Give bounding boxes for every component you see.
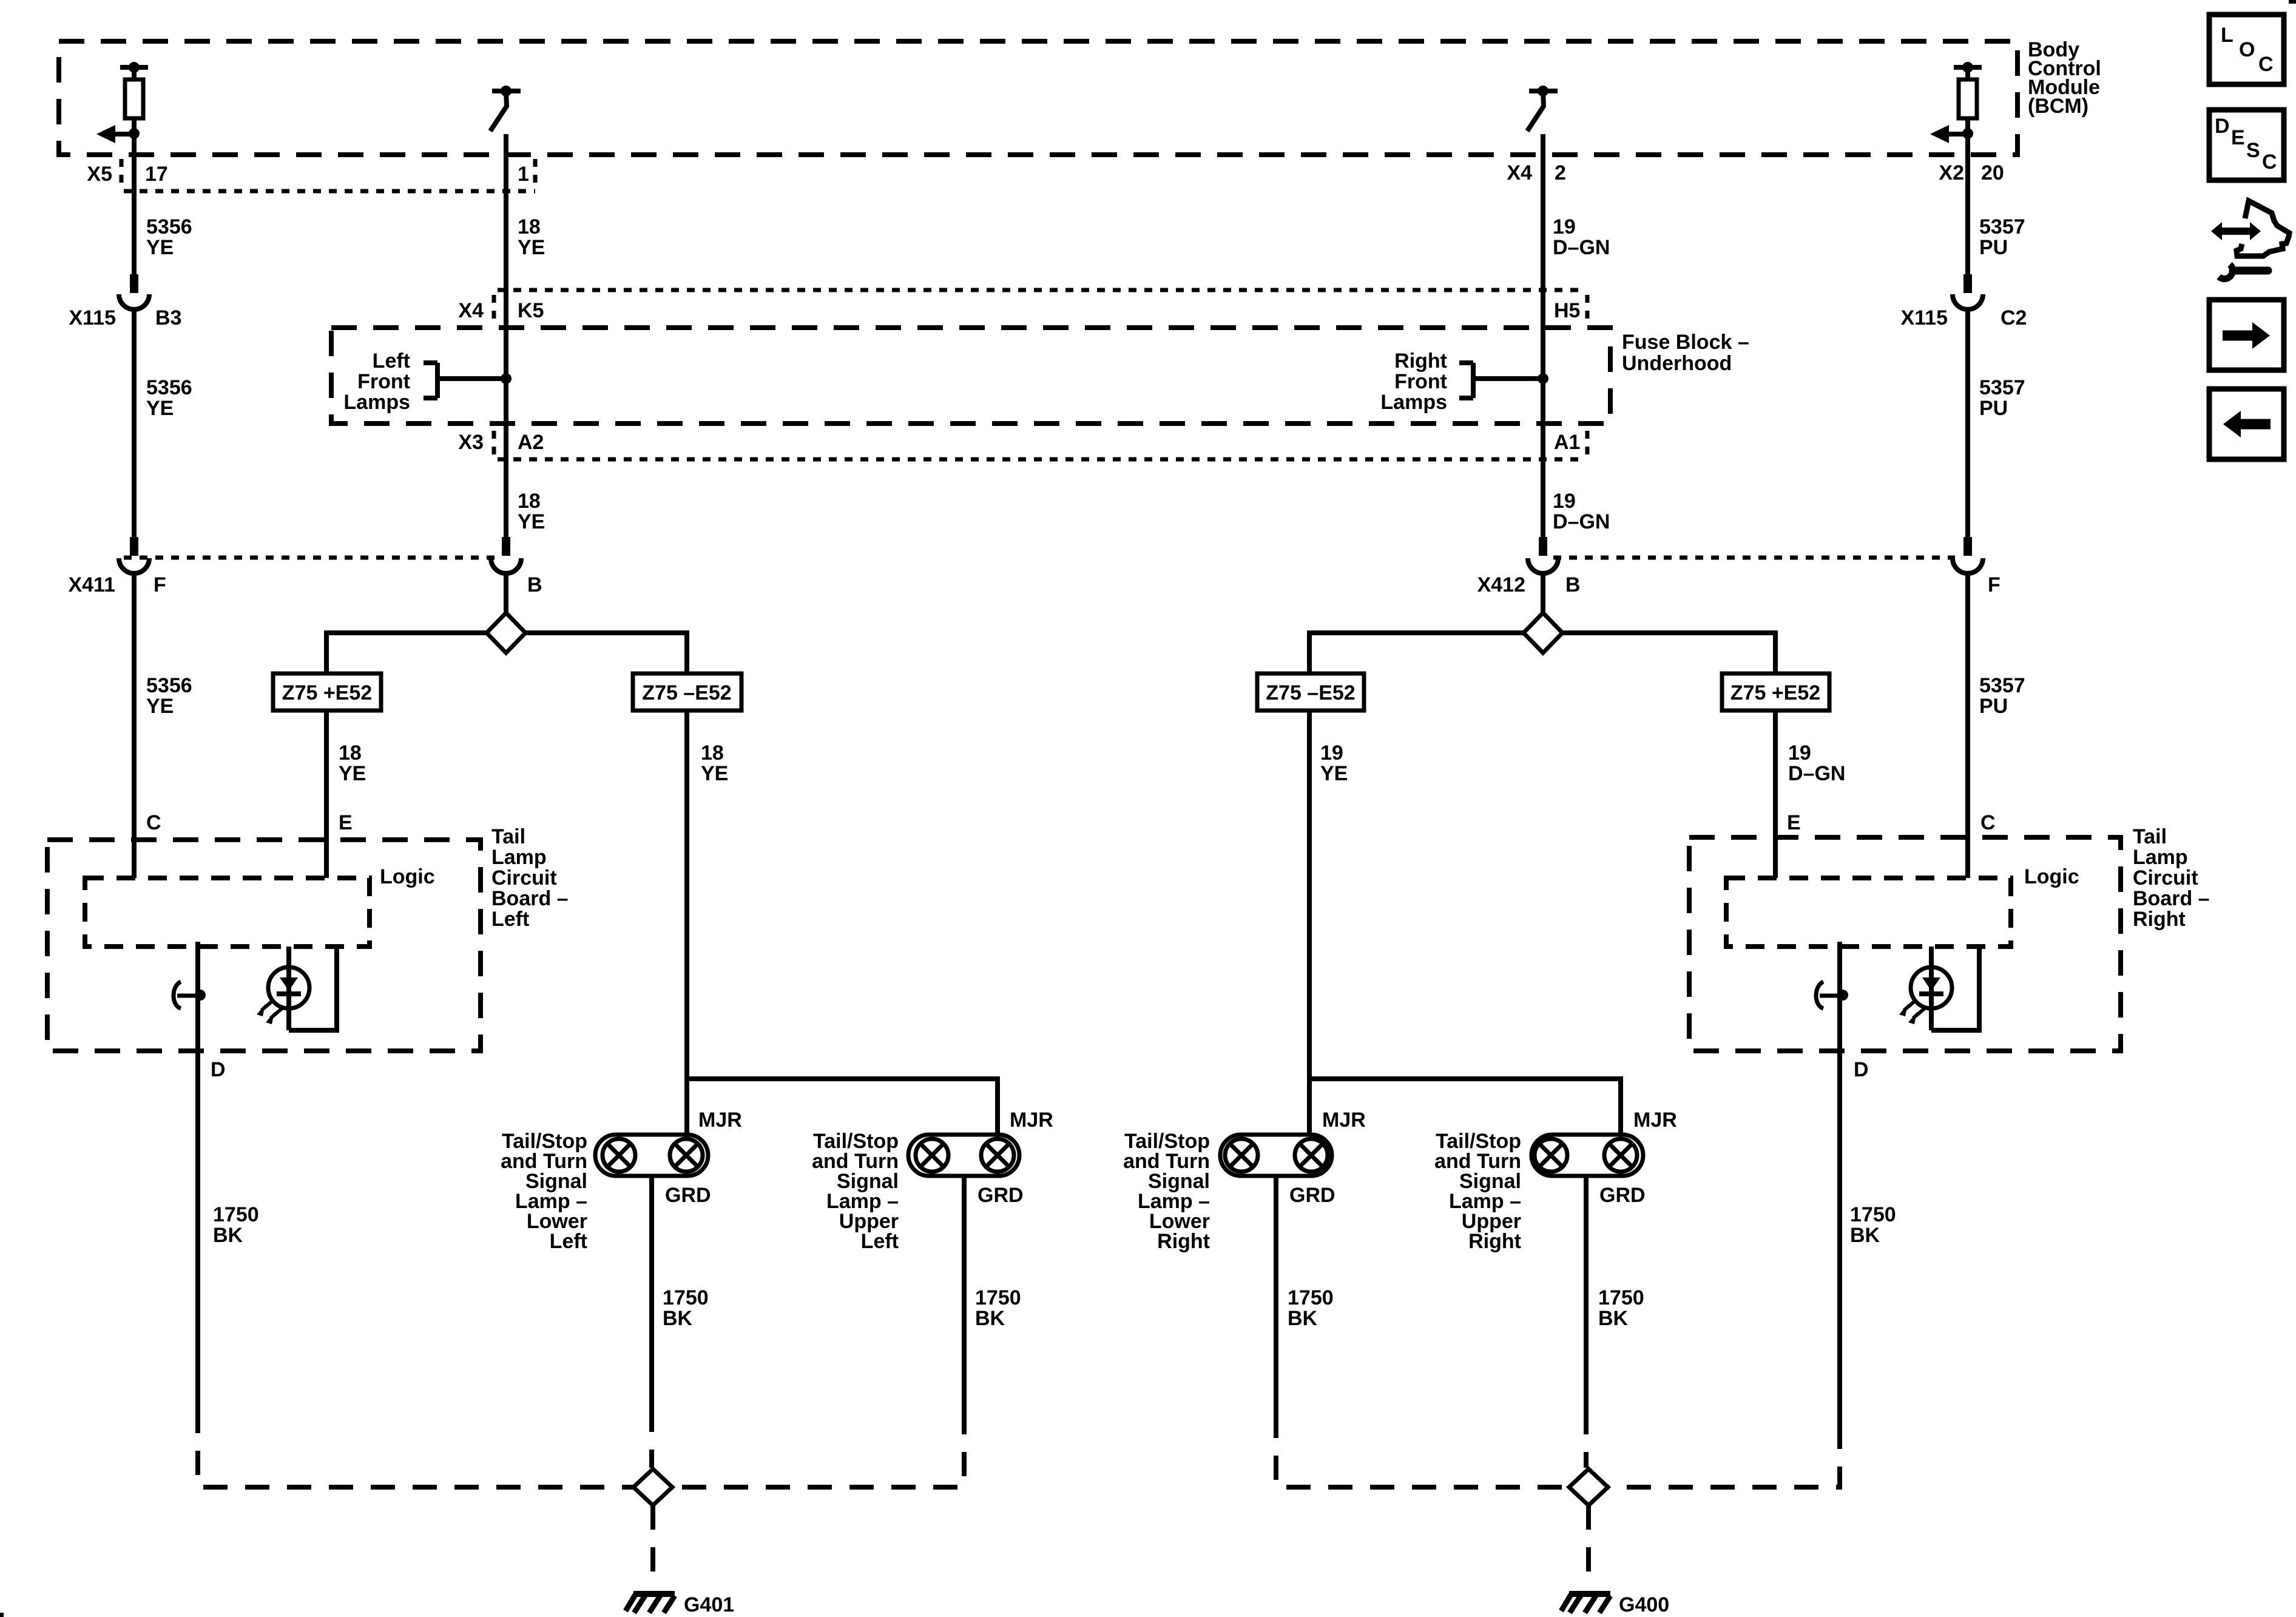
- wire 18 YE (X411-B to splice diamond): [504, 572, 508, 613]
- svg-text:1750: 1750: [1598, 1286, 1644, 1309]
- svg-text:Lamp: Lamp: [491, 846, 547, 869]
- splice pack Z75 +E52 (left): [273, 673, 381, 711]
- svg-text:D: D: [211, 1058, 226, 1081]
- Tail Lamp Circuit Board - Right dashed box: [1689, 837, 2121, 1051]
- splice pack Z75 -E52 (right): [1257, 673, 1364, 711]
- svg-text:1750: 1750: [213, 1203, 259, 1226]
- svg-text:YE: YE: [146, 695, 174, 718]
- wire 1750 BK (lamp lower right GRD): [1274, 1176, 1278, 1414]
- svg-text:18: 18: [518, 215, 541, 238]
- svg-text:Logic: Logic: [380, 865, 435, 888]
- svg-text:Front: Front: [1394, 370, 1447, 393]
- splice pack Z75 +E52 (right): [1722, 673, 1829, 711]
- svg-text:YE: YE: [1320, 762, 1348, 785]
- svg-text:Z75 –E52: Z75 –E52: [642, 681, 731, 704]
- wire 5357 PU (X412 to right board pin C): [1965, 572, 1970, 878]
- svg-text:O: O: [2239, 38, 2255, 61]
- LED (left board): [257, 947, 337, 1030]
- svg-text:GRD: GRD: [665, 1184, 711, 1207]
- svg-text:D: D: [2215, 115, 2230, 138]
- svg-text:D–GN: D–GN: [1553, 510, 1610, 533]
- svg-text:Underhood: Underhood: [1622, 352, 1732, 375]
- Fuse Block - Underhood dashed box: [331, 328, 1610, 424]
- svg-text:Lamps: Lamps: [343, 391, 410, 414]
- junction dot (Left Front Lamps tap): [501, 373, 512, 384]
- node dot + left arrow (BCM left output): [96, 125, 140, 143]
- svg-text:(BCM): (BCM): [2028, 95, 2088, 118]
- splice diamond (left): [487, 613, 525, 653]
- in-line connector X412 pin B: [1528, 537, 1558, 573]
- svg-text:PU: PU: [1979, 695, 2008, 718]
- svg-text:Right: Right: [1468, 1230, 1521, 1253]
- wire 18 YE (Z75-E52 down to lamp MJR): [684, 711, 689, 1136]
- svg-text:19: 19: [1788, 741, 1811, 765]
- svg-text:X411: X411: [68, 573, 115, 596]
- wire branch left (to Z75 +E52): [326, 633, 487, 673]
- wire 5357 PU (BCM X2-20 to X115): [1965, 133, 1970, 274]
- wire 5356 YE (X411 to tail lamp board C): [132, 572, 137, 878]
- svg-text:18: 18: [518, 490, 541, 513]
- wire 5356 YE (X115 to X411): [132, 308, 137, 537]
- svg-text:1750: 1750: [663, 1286, 709, 1309]
- resistor R-right (inside BCM): [1954, 62, 1982, 155]
- in-line connector X115 pin C2: [1953, 274, 1983, 309]
- wire 18 YE (BCM X5-1 down to splice): [504, 134, 508, 537]
- Tail Lamp Circuit Board - Left dashed box: [47, 840, 481, 1051]
- svg-text:1750: 1750: [1288, 1286, 1334, 1309]
- svg-text:19: 19: [1320, 741, 1343, 765]
- splice diamond G400: [1569, 1469, 1608, 1505]
- in-line connector X411 pin F: [119, 537, 149, 573]
- wire 1750 BK (lamp lower left GRD): [649, 1176, 654, 1408]
- svg-text:Right: Right: [1157, 1230, 1210, 1253]
- svg-text:X5: X5: [87, 163, 112, 186]
- svg-text:YE: YE: [146, 397, 174, 420]
- svg-text:E: E: [339, 811, 353, 834]
- svg-text:C2: C2: [2001, 306, 2027, 329]
- Tail/Stop and Turn Signal Lamp - Lower Left: [595, 1135, 708, 1176]
- node dot + left arrow (BCM right output): [1930, 125, 1973, 143]
- dashed wire to G400 splice: [1584, 1410, 1589, 1468]
- svg-text:G400: G400: [1619, 1593, 1669, 1616]
- svg-text:Z75 +E52: Z75 +E52: [282, 681, 372, 704]
- splice pack Z75 -E52 (left): [633, 673, 741, 711]
- wire 5357 PU (X115 to X412): [1965, 308, 1970, 537]
- svg-text:K5: K5: [518, 299, 544, 322]
- svg-text:L: L: [2221, 24, 2234, 47]
- svg-text:GRD: GRD: [977, 1184, 1024, 1207]
- svg-text:YE: YE: [518, 510, 545, 533]
- svg-text:X2: X2: [1939, 161, 1964, 184]
- connector X5 band (pins 17 and 1): [121, 159, 535, 191]
- svg-text:20: 20: [1981, 161, 2004, 184]
- svg-text:Tail: Tail: [2133, 825, 2167, 848]
- dashed wire (upper left lamp to splice run): [672, 1410, 964, 1487]
- svg-text:YE: YE: [518, 236, 545, 259]
- arrow-right icon box: [2209, 300, 2284, 370]
- switch inside right board: [1816, 982, 1848, 1008]
- dashed wire to G401 splice: [649, 1408, 654, 1468]
- svg-text:C: C: [2262, 150, 2277, 174]
- svg-text:D–GN: D–GN: [1553, 236, 1610, 259]
- svg-text:Right: Right: [1394, 349, 1447, 373]
- svg-text:5356: 5356: [146, 674, 192, 697]
- svg-text:PU: PU: [1979, 397, 2008, 420]
- wire 19 D-GN (BCM X4-2 down): [1541, 134, 1545, 537]
- connector X411 band dotted line: [124, 556, 496, 560]
- svg-text:C: C: [2258, 53, 2274, 76]
- svg-text:X4: X4: [458, 299, 484, 322]
- Left Front Lamps bracket: [424, 363, 506, 398]
- splice diamond (right): [1524, 613, 1562, 653]
- in-line connector X412 pin F: [1953, 537, 1983, 573]
- svg-text:PU: PU: [1979, 236, 2008, 259]
- wire branch to upper-right lamp: [1309, 1079, 1621, 1136]
- fuse block connector band top (X4 K5 / H5): [494, 290, 1587, 322]
- lamp upper left description: [812, 1130, 899, 1253]
- svg-text:G401: G401: [684, 1593, 734, 1616]
- wire branch right (to Z75 +E52 right): [1562, 633, 1775, 673]
- svg-text:19: 19: [1553, 490, 1576, 513]
- svg-text:MJR: MJR: [698, 1109, 742, 1132]
- lamp lower left description: [501, 1130, 587, 1253]
- svg-text:Right: Right: [2133, 908, 2186, 931]
- wire 5356 YE (BCM X5-17 to X115): [132, 133, 137, 274]
- svg-text:MJR: MJR: [1322, 1109, 1366, 1132]
- svg-text:YE: YE: [339, 762, 366, 785]
- wire 19 YE (Z75-E52 down to lamp MJR right): [1307, 711, 1312, 1136]
- fuse block connector band bottom (X3 A2 / A1): [494, 431, 1587, 459]
- svg-text:YE: YE: [701, 762, 728, 785]
- svg-text:Board –: Board –: [491, 887, 569, 910]
- dashed wire to ground G401: [650, 1505, 655, 1582]
- svg-text:Circuit: Circuit: [491, 866, 557, 890]
- page artifact top right: [2289, 0, 2296, 4]
- svg-text:1750: 1750: [975, 1286, 1021, 1309]
- svg-text:B: B: [1565, 573, 1581, 596]
- wire D (left board to ground run): [195, 942, 200, 1409]
- wire D (right board down): [1837, 942, 1842, 1425]
- svg-text:Fuse Block –: Fuse Block –: [1622, 331, 1749, 354]
- svg-text:BK: BK: [1598, 1307, 1629, 1330]
- wire 19 D-GN (Z75+E52 to board pin E right): [1773, 711, 1778, 878]
- svg-text:5356: 5356: [146, 215, 192, 238]
- Body Control Module (BCM) dashed box: [59, 41, 2017, 155]
- svg-text:A2: A2: [518, 431, 544, 454]
- LOC icon box: [2209, 15, 2284, 84]
- svg-text:GRD: GRD: [1289, 1184, 1335, 1207]
- svg-text:Lamp: Lamp: [2133, 846, 2188, 869]
- svg-text:E: E: [2231, 126, 2245, 149]
- diagnostic (car + wrench) icon: [2211, 201, 2289, 279]
- Logic box (right): [1726, 878, 2011, 947]
- svg-text:Front: Front: [357, 370, 410, 393]
- lamp lower right description: [1123, 1130, 1210, 1253]
- svg-text:D–GN: D–GN: [1788, 762, 1845, 785]
- svg-text:1750: 1750: [1850, 1203, 1896, 1226]
- Tail/Stop and Turn Signal Lamp - Upper Left: [908, 1135, 1019, 1176]
- arrow-left icon box: [2209, 389, 2284, 459]
- svg-text:Board –: Board –: [2133, 887, 2210, 910]
- svg-text:D: D: [1854, 1058, 1869, 1081]
- splice diamond G401: [633, 1469, 672, 1505]
- wire 1750 BK (lamp upper left GRD): [962, 1176, 967, 1410]
- page artifact bottom left: [0, 1613, 4, 1617]
- Tail/Stop and Turn Signal Lamp - Lower Right: [1220, 1135, 1332, 1176]
- lamp upper right description: [1434, 1130, 1521, 1253]
- svg-text:18: 18: [339, 741, 362, 765]
- ground G401: [626, 1593, 675, 1613]
- resistor R-left (inside BCM): [120, 62, 148, 155]
- svg-text:Circuit: Circuit: [2133, 866, 2198, 890]
- svg-text:X115: X115: [1900, 306, 1948, 329]
- svg-text:A1: A1: [1554, 431, 1580, 454]
- switch S-right (inside BCM): [1527, 86, 1558, 131]
- svg-text:BK: BK: [975, 1307, 1005, 1330]
- LED (right board): [1899, 947, 1979, 1030]
- svg-text:5357: 5357: [1979, 215, 2025, 238]
- dashed wire to ground G400: [1586, 1505, 1591, 1582]
- wire branch left (to Z75 -E52 right): [1309, 633, 1524, 673]
- ground G400: [1561, 1593, 1610, 1613]
- dashed wire (left D to splice): [198, 1409, 633, 1487]
- svg-text:Lamps: Lamps: [1380, 391, 1447, 414]
- svg-text:BK: BK: [1288, 1307, 1318, 1330]
- svg-text:YE: YE: [146, 236, 174, 259]
- in-line connector X411 pin B: [491, 537, 521, 573]
- svg-text:2: 2: [1555, 161, 1566, 184]
- svg-text:BK: BK: [213, 1224, 243, 1247]
- wire branch right (to Z75 -E52): [525, 633, 687, 673]
- svg-text:Z75 –E52: Z75 –E52: [1266, 681, 1355, 704]
- switch inside left board: [174, 982, 206, 1008]
- dashed wire (right D to splice): [1608, 1425, 1840, 1487]
- svg-text:BK: BK: [663, 1307, 693, 1330]
- wire 19 D-GN (X412-B to splice diamond): [1541, 572, 1545, 613]
- svg-text:17: 17: [145, 163, 168, 186]
- wire 18 YE (Z75+E52 to board pin E): [324, 711, 329, 878]
- svg-text:Tail: Tail: [491, 825, 525, 848]
- svg-text:F: F: [1988, 573, 2001, 596]
- switch S-left (inside BCM): [490, 86, 521, 131]
- svg-text:18: 18: [701, 741, 724, 765]
- svg-text:5357: 5357: [1979, 376, 2025, 399]
- svg-text:X412: X412: [1477, 573, 1525, 596]
- svg-text:19: 19: [1553, 215, 1576, 238]
- svg-text:5357: 5357: [1979, 674, 2025, 697]
- svg-text:H5: H5: [1554, 299, 1580, 322]
- Right Front Lamps bracket: [1459, 363, 1543, 398]
- svg-text:Logic: Logic: [2024, 865, 2079, 888]
- svg-text:C: C: [146, 811, 161, 834]
- svg-text:MJR: MJR: [1010, 1109, 1053, 1132]
- svg-text:Left: Left: [550, 1230, 587, 1253]
- wire 1750 BK (lamp upper right GRD): [1584, 1176, 1589, 1410]
- svg-text:Left: Left: [491, 908, 529, 931]
- svg-text:C: C: [1980, 811, 1996, 834]
- Logic box (left): [85, 878, 370, 947]
- svg-text:X115: X115: [69, 306, 116, 329]
- in-line connector X115 pin B3: [119, 274, 149, 309]
- svg-text:GRD: GRD: [1599, 1184, 1646, 1207]
- svg-text:1: 1: [518, 163, 529, 186]
- connector X412 band dotted line: [1553, 556, 1955, 560]
- svg-text:5356: 5356: [146, 376, 192, 399]
- DESC icon box: [2209, 110, 2284, 180]
- wire branch to upper-left lamp: [687, 1079, 998, 1136]
- svg-text:E: E: [1787, 811, 1801, 834]
- svg-text:Left: Left: [861, 1230, 899, 1253]
- svg-text:X4: X4: [1507, 161, 1532, 184]
- dashed wire (lower right lamp to splice run): [1276, 1414, 1569, 1487]
- svg-text:MJR: MJR: [1633, 1109, 1677, 1132]
- svg-text:X3: X3: [458, 431, 484, 454]
- junction dot (Right Front Lamps tap): [1538, 373, 1548, 384]
- svg-text:B: B: [527, 573, 542, 596]
- Tail/Stop and Turn Signal Lamp - Upper Right: [1531, 1135, 1643, 1176]
- svg-text:F: F: [154, 573, 166, 596]
- svg-text:S: S: [2246, 139, 2260, 162]
- svg-text:Left: Left: [373, 349, 410, 373]
- svg-text:Z75 +E52: Z75 +E52: [1730, 681, 1820, 704]
- svg-text:B3: B3: [155, 306, 181, 329]
- svg-text:BK: BK: [1850, 1224, 1880, 1247]
